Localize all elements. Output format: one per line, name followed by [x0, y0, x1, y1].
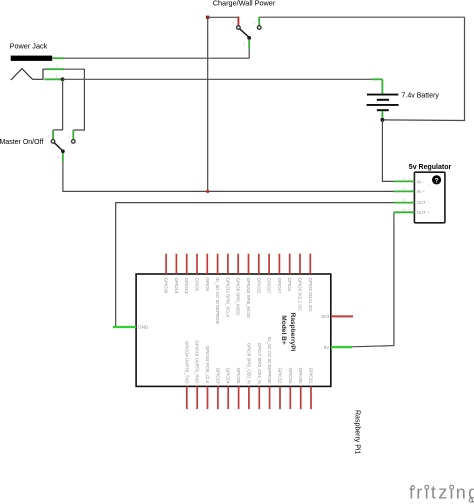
svg-text:GPIO2 SDA1 I2C: GPIO2 SDA1 I2C	[308, 278, 313, 312]
Pi GND pin lead	[113, 325, 149, 330]
regulator U1 pin leads	[394, 177, 415, 212]
svg-text:3: 3	[403, 198, 405, 202]
svg-text:4: 4	[403, 208, 405, 212]
svg-text:GPIO23: GPIO23	[215, 368, 220, 384]
battery BT1 7.4v	[367, 79, 399, 119]
Raspberry Pi U2 box	[136, 274, 331, 386]
svg-text:GPIO12: GPIO12	[278, 368, 283, 384]
wire regulator OUT+ left, down and to Pi 5V	[352, 212, 394, 346]
svg-text:Raspberry Pi1: Raspberry Pi1	[354, 410, 361, 454]
Pi top pin labels	[164, 278, 313, 325]
node: red junction top (207.7,17.3)	[206, 16, 209, 19]
svg-text:1: 1	[48, 135, 50, 139]
label 5v Regulator	[409, 164, 452, 171]
svg-text:GPIO6: GPIO6	[195, 278, 200, 292]
wire top right: S1 terminal 2 to right rail	[259, 16, 464, 18]
svg-text:ID_SD OC ID EEPROM: ID_SD OC ID EEPROM	[215, 278, 220, 325]
Pi bottom pins	[187, 386, 311, 409]
svg-text:GPIO10 SPI0_MOSI: GPIO10 SPI0_MOSI	[246, 278, 251, 318]
wire junction down to master switch terminal 1	[53, 79, 63, 130]
svg-text:3V3: 3V3	[321, 314, 330, 319]
Pi center title	[280, 313, 296, 352]
svg-text:GPIO13: GPIO13	[184, 278, 189, 294]
svg-text:GPIO9 SPI0_MISO: GPIO9 SPI0_MISO	[236, 278, 241, 316]
svg-text:GPIO27: GPIO27	[267, 278, 272, 294]
regulator U1 box	[414, 172, 445, 223]
svg-text:GPIO21: GPIO21	[309, 368, 314, 384]
svg-text:GPIO26: GPIO26	[164, 278, 169, 294]
Pi 5V pin lead	[324, 345, 352, 350]
svg-text:GPIO17: GPIO17	[277, 278, 282, 294]
svg-text:OUT +: OUT +	[417, 210, 431, 215]
svg-text:GPIO18 PCM_CLK: GPIO18 PCM_CLK	[205, 346, 210, 384]
wire S2 common down and right to regulator IN+	[63, 162, 394, 192]
svg-text:5V: 5V	[324, 345, 331, 350]
power jack J1	[11, 56, 64, 80]
svg-text:5v Regulator: 5v Regulator	[409, 164, 452, 171]
svg-text:GPIO5: GPIO5	[205, 278, 210, 292]
svg-text:GPIO15 UART0_RXD: GPIO15 UART0_RXD	[195, 340, 200, 383]
wire jack tip to S1 common	[64, 57, 249, 59]
svg-text:OUT -: OUT -	[417, 200, 430, 205]
switch S1 Charge/Wall Power	[233, 17, 262, 49]
svg-text:GPIO16: GPIO16	[288, 368, 293, 384]
wire right rail: top to battery minus	[382, 17, 464, 120]
svg-text:GPIO11 SPI0_SCLK: GPIO11 SPI0_SCLK	[225, 278, 230, 318]
svg-text:2: 2	[56, 64, 58, 68]
svg-text:GPIO8 SPI0_CE0_N: GPIO8 SPI0_CE0_N	[246, 343, 251, 384]
svg-text:IN +: IN +	[417, 189, 426, 194]
svg-text:2: 2	[254, 22, 256, 26]
label Charge/Wall Power	[213, 0, 276, 8]
svg-text:2: 2	[68, 135, 70, 139]
wire regulator OUT- left and down to Pi GND	[116, 203, 394, 327]
svg-text:GPIO24: GPIO24	[226, 368, 231, 384]
label Raspberry Pi1	[354, 410, 361, 454]
wire vertical from junction down to IN+ net	[207, 17, 209, 191]
svg-text:GND: GND	[138, 325, 149, 330]
label Master On/Off	[0, 139, 43, 146]
svg-text:GPIO3 SCL1 I2C: GPIO3 SCL1 I2C	[298, 278, 303, 312]
svg-text:1: 1	[403, 177, 405, 181]
svg-text:ID_SC OC ID EEPROM: ID_SC OC ID EEPROM	[267, 337, 272, 384]
Pi bottom pin labels	[184, 337, 313, 384]
svg-text:1: 1	[233, 22, 235, 26]
wire junction to switch S1 terminal 1	[208, 16, 239, 18]
svg-text:GPIO20: GPIO20	[298, 368, 303, 384]
svg-text:IN -: IN -	[417, 180, 425, 185]
svg-text:2: 2	[403, 187, 405, 191]
wire jack pin2 to master switch terminal 2	[64, 69, 84, 130]
svg-text:?: ?	[435, 177, 439, 184]
svg-text:GPIO4: GPIO4	[287, 278, 292, 292]
Pi top pins	[166, 254, 310, 274]
wire sleeve net to battery plus	[63, 78, 383, 80]
Pi 3V3 pin lead	[321, 314, 353, 319]
wire battery minus down to regulator IN-	[382, 120, 393, 181]
svg-text:Charge/Wall Power: Charge/Wall Power	[213, 0, 276, 8]
node: battery minus junction (382.4,119.9)	[380, 118, 384, 122]
fritzing logo	[409, 483, 474, 503]
svg-text:GPIO22: GPIO22	[256, 278, 261, 294]
svg-text:Power Jack: Power Jack	[10, 42, 48, 51]
svg-text:GPIO14 UART0_TXD: GPIO14 UART0_TXD	[184, 341, 189, 384]
svg-text:7.4v Battery: 7.4v Battery	[402, 93, 440, 100]
label 7.4v Battery	[402, 93, 440, 100]
node: red junction (207.7,191.4)	[206, 190, 209, 193]
svg-text:3: 3	[243, 43, 245, 47]
svg-text:↑: ↑	[428, 183, 430, 188]
svg-text:fritzing: fritzing	[409, 483, 474, 503]
label Power Jack	[10, 42, 48, 51]
svg-text:Model B+: Model B+	[280, 315, 287, 345]
svg-text:RaspberryPi: RaspberryPi	[289, 313, 296, 352]
switch S2 Master On/Off	[48, 130, 76, 162]
svg-text:GPIO19: GPIO19	[174, 278, 179, 294]
svg-text:GPIO25: GPIO25	[236, 368, 241, 384]
svg-text:3: 3	[57, 156, 59, 160]
svg-text:3: 3	[56, 74, 58, 78]
node: junction on sleeve net (62.6,79.3)	[61, 77, 65, 81]
svg-text:GPIO7 SPI0_CE1_N: GPIO7 SPI0_CE1_N	[257, 343, 262, 384]
wire S1 common down to tip wire	[248, 49, 250, 59]
svg-text:Master On/Off: Master On/Off	[0, 139, 43, 146]
